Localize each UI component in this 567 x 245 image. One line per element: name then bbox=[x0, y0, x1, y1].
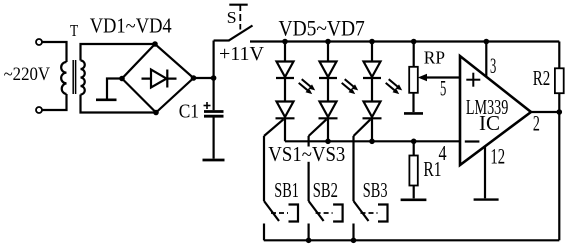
svg-text:SB3: SB3 bbox=[363, 178, 388, 202]
svg-text:IC: IC bbox=[479, 113, 500, 135]
svg-text:VD5~VD7: VD5~VD7 bbox=[279, 16, 365, 41]
svg-text:C1: C1 bbox=[179, 101, 199, 123]
svg-text:3: 3 bbox=[490, 53, 496, 78]
svg-text:R2: R2 bbox=[533, 66, 551, 90]
svg-text:VS1~VS3: VS1~VS3 bbox=[268, 142, 345, 166]
svg-text:T: T bbox=[70, 21, 78, 40]
svg-text:~220V: ~220V bbox=[4, 65, 51, 85]
svg-text:12: 12 bbox=[490, 144, 505, 169]
svg-text:SB1: SB1 bbox=[274, 178, 299, 202]
svg-text:+11V: +11V bbox=[219, 43, 264, 65]
svg-text:SB2: SB2 bbox=[313, 178, 338, 202]
svg-text:S: S bbox=[227, 8, 237, 27]
svg-text:VD1~VD4: VD1~VD4 bbox=[90, 14, 172, 38]
svg-text:R1: R1 bbox=[423, 157, 441, 181]
svg-text:5: 5 bbox=[440, 76, 446, 101]
svg-text:2: 2 bbox=[533, 110, 540, 135]
svg-text:RP: RP bbox=[424, 48, 445, 68]
